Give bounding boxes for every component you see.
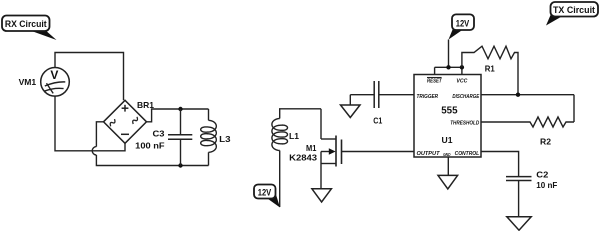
IC U1 555 timer bbox=[414, 75, 481, 158]
wire RESET stub bbox=[434, 67, 436, 74]
svg-text:12V: 12V bbox=[456, 18, 470, 29]
svg-text:R1: R1 bbox=[485, 64, 495, 74]
wire hop over VM1 wire bbox=[92, 147, 96, 155]
svg-text:R2: R2 bbox=[540, 136, 551, 146]
12V supply callout (bottom) bbox=[254, 185, 280, 208]
12V supply callout (top) bbox=[449, 14, 475, 39]
wire OUTPUT to gate bbox=[342, 151, 415, 153]
wire L1 top to drain bbox=[280, 109, 321, 119]
svg-text:VM1: VM1 bbox=[19, 77, 37, 87]
svg-text:TX Circuit: TX Circuit bbox=[553, 5, 596, 16]
capacitor C2 bbox=[506, 177, 532, 217]
wire RESET-VCC rail bbox=[435, 66, 462, 68]
wire VM1 bottom to bridge bottom bbox=[55, 96, 125, 151]
svg-text:100 nF: 100 nF bbox=[135, 141, 164, 151]
wire down to R2 bbox=[573, 95, 575, 122]
svg-text:TRIGGER: TRIGGER bbox=[417, 94, 439, 100]
resistor R1 bbox=[462, 46, 518, 94]
wire bridge left corner down (with hop) bbox=[96, 122, 103, 147]
bridge rectifier BR1 bbox=[104, 100, 147, 143]
capacitor C3 bbox=[168, 109, 192, 166]
wire bridge right corner to top rail bbox=[147, 109, 209, 122]
svg-text:THRESHOLD: THRESHOLD bbox=[450, 120, 479, 126]
ground (C2) bbox=[507, 217, 531, 231]
svg-text:U1: U1 bbox=[442, 135, 453, 145]
TX Circuit callout bbox=[546, 2, 598, 26]
ground (C1) bbox=[341, 105, 361, 118]
svg-text:DISCHARGE: DISCHARGE bbox=[452, 94, 479, 100]
node 12V junction bbox=[446, 65, 450, 69]
ground (M1 source) bbox=[312, 189, 332, 202]
node top rail / C3 junction bbox=[178, 107, 182, 111]
svg-text:CONTROL: CONTROL bbox=[455, 151, 480, 157]
capacitor C1 bbox=[350, 81, 414, 108]
svg-text:L1: L1 bbox=[289, 131, 299, 141]
svg-text:GND: GND bbox=[443, 152, 451, 157]
svg-text:VCC: VCC bbox=[456, 79, 468, 85]
svg-text:RESET: RESET bbox=[427, 79, 442, 85]
svg-text:C1: C1 bbox=[373, 116, 382, 126]
RX Circuit callout bbox=[2, 16, 57, 41]
inductor L1 bbox=[272, 119, 288, 151]
wire to bottom rail bbox=[96, 155, 208, 166]
voltmeter VM1 bbox=[41, 68, 70, 97]
inductor L3 bbox=[201, 109, 217, 166]
node DISCHARGE/R1 junction bbox=[516, 93, 520, 97]
transistor M1 (N-MOSFET K2843) bbox=[321, 109, 342, 189]
wire DISCHARGE row bbox=[481, 94, 574, 96]
svg-text:12V: 12V bbox=[258, 187, 272, 198]
svg-text:OUTPUT: OUTPUT bbox=[417, 151, 441, 157]
svg-text:V: V bbox=[50, 68, 58, 82]
wire CONTROL to C2 bbox=[481, 152, 519, 177]
node VCC junction bbox=[460, 65, 464, 69]
svg-text:K2843: K2843 bbox=[289, 153, 317, 163]
svg-text:10 nF: 10 nF bbox=[536, 180, 557, 190]
svg-text:L3: L3 bbox=[219, 134, 231, 144]
wire GND stub bbox=[447, 157, 449, 175]
svg-text:C2: C2 bbox=[536, 169, 548, 179]
wire VCC stub bbox=[461, 67, 463, 74]
svg-text:C3: C3 bbox=[153, 129, 165, 139]
svg-text:M1: M1 bbox=[306, 143, 317, 153]
ground (U1 GND) bbox=[438, 175, 458, 189]
wire VM1 top to bridge top bbox=[55, 53, 124, 101]
wire 12V to RESET/VCC rail bbox=[448, 40, 450, 68]
resistor R2 bbox=[481, 117, 574, 127]
node bottom rail / C3 junction bbox=[178, 163, 182, 167]
svg-text:RX Circuit: RX Circuit bbox=[5, 19, 48, 30]
wire L1 bottom bbox=[279, 151, 281, 208]
svg-text:555: 555 bbox=[441, 105, 458, 116]
